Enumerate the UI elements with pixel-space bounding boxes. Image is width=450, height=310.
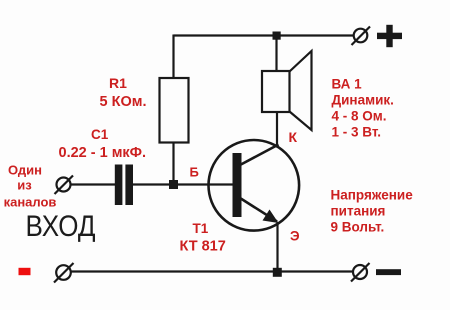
svg-text:ВХОД: ВХОД — [26, 210, 96, 243]
node bottom junction — [273, 268, 282, 277]
svg-text:КТ 817: КТ 817 — [180, 239, 226, 255]
capacitor C1 — [115, 165, 133, 206]
label napryazhenie pitaniya — [331, 188, 414, 235]
transistor T1 — [209, 140, 300, 231]
svg-text:Э: Э — [290, 229, 300, 244]
svg-text:5 КОм.: 5 КОм. — [100, 94, 147, 110]
wire speaker to top junction — [275, 36, 277, 72]
wire R1 bottom to base node — [172, 143, 174, 186]
terminal input — [55, 176, 74, 195]
svg-text:С1: С1 — [91, 127, 109, 142]
svg-text:питания: питания — [331, 204, 386, 219]
svg-text:К: К — [289, 129, 298, 145]
svg-text:Напряжение: Напряжение — [331, 188, 414, 203]
wire C1 to base — [133, 183, 233, 185]
terminal bottom left — [54, 263, 74, 283]
terminal bottom right — [351, 263, 370, 282]
wire R1 top — [172, 35, 174, 79]
wire emitter down — [276, 222, 278, 272]
minus symbol red left — [19, 268, 31, 275]
svg-text:R1: R1 — [109, 75, 127, 91]
svg-text:Динамик.: Динамик. — [332, 93, 394, 108]
wire top rail — [174, 34, 355, 36]
svg-text:1 - 3 Вт.: 1 - 3 Вт. — [332, 125, 382, 140]
minus symbol right — [376, 269, 401, 275]
svg-text:4 - 8 Ом.: 4 - 8 Ом. — [332, 109, 387, 124]
speaker BA1 — [262, 51, 312, 130]
svg-text:Б: Б — [190, 165, 199, 180]
svg-text:0.22 - 1 мкФ.: 0.22 - 1 мкФ. — [59, 145, 147, 161]
svg-text:Т1: Т1 — [193, 221, 209, 236]
terminal top right plus — [352, 27, 371, 46]
wire collector up to speaker — [276, 112, 278, 146]
svg-text:каналов: каналов — [4, 195, 57, 210]
resistor R1 — [160, 78, 189, 143]
svg-text:Один: Один — [8, 163, 42, 178]
label Odin iz kanalov — [4, 163, 57, 210]
wire input to C1 — [71, 183, 116, 185]
plus symbol — [377, 25, 402, 47]
wire bottom rail — [71, 270, 354, 272]
node top junction — [273, 32, 281, 40]
svg-text:9 Вольт.: 9 Вольт. — [331, 220, 385, 235]
svg-text:ВА 1: ВА 1 — [332, 77, 363, 92]
svg-text:из: из — [17, 178, 32, 193]
node base junction — [169, 180, 178, 189]
